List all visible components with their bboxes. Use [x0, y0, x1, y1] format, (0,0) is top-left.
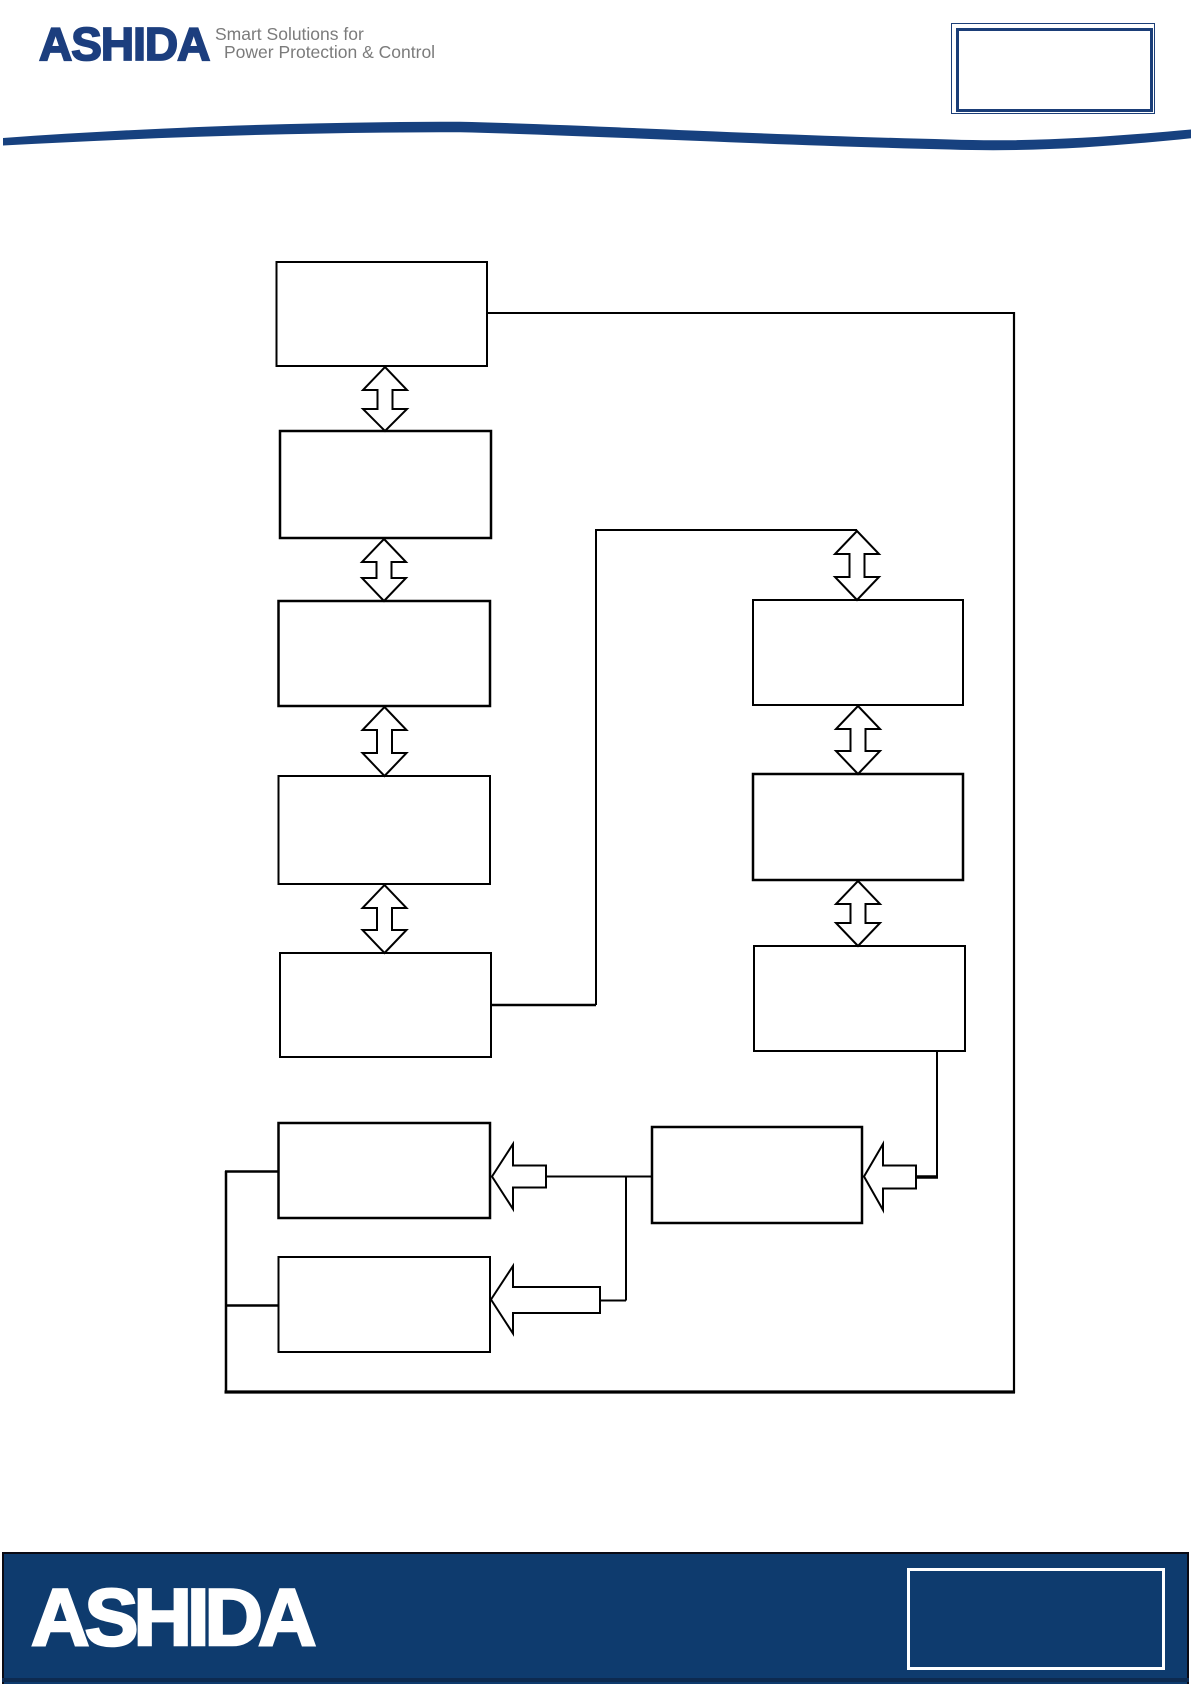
double arrow A5 wire-box6	[835, 531, 879, 600]
double arrow A3 box3-box4	[363, 707, 407, 776]
footer ASHIDA wordmark	[31, 1572, 312, 1665]
header top-right inner frame	[956, 28, 1153, 112]
double arrow A1 box1-box2	[363, 367, 407, 431]
wire into arrow10 tail	[916, 1175, 938, 1179]
footer bar	[2, 1552, 1189, 1684]
wire from box5 right	[491, 1004, 596, 1007]
logo tagline line 1	[215, 24, 364, 45]
vertical riser wire x596	[595, 530, 597, 1005]
block box 1	[277, 262, 488, 366]
block box 2	[280, 431, 491, 538]
top wire to arrow A5	[595, 529, 857, 531]
footer bottom dark line	[2, 1678, 1189, 1682]
wire from arrow9 tail to box10	[546, 1176, 652, 1178]
block box 4	[279, 776, 491, 884]
double arrow A4 box4-box5	[363, 885, 407, 953]
outer bottom rail wire	[225, 1390, 1016, 1393]
header swoosh curve	[0, 0, 1191, 170]
logo ASHIDA wordmark	[39, 17, 209, 71]
drop wire from box8 bottom	[936, 1051, 938, 1177]
branch vertical wire x626	[625, 1177, 627, 1301]
block box 9	[279, 1123, 491, 1218]
block box 6	[753, 600, 963, 705]
outer left rail wire	[225, 1171, 228, 1393]
double arrow A6 box6-box7	[836, 706, 880, 774]
stub wire into box9	[225, 1170, 278, 1173]
footer right white frame	[907, 1568, 1165, 1670]
block box 8	[754, 946, 965, 1051]
left arrow into box11	[491, 1266, 600, 1334]
logo tagline line 2	[224, 42, 435, 63]
block box 7	[753, 774, 963, 880]
wire from box1 right to outer right rail	[487, 312, 1014, 314]
block box 11	[279, 1257, 491, 1352]
block box 10	[652, 1127, 862, 1223]
stub wire into box11	[225, 1304, 278, 1307]
block box 3	[279, 601, 491, 706]
header top-right outer frame	[951, 23, 1155, 114]
wire into arrow11 tail	[600, 1300, 626, 1302]
outer right rail wire	[1013, 312, 1015, 1393]
left arrow into box10	[864, 1144, 916, 1210]
left arrow into box9	[492, 1144, 546, 1209]
double arrow A2 box2-box3	[362, 539, 406, 601]
double arrow A7 box7-box8	[836, 881, 880, 946]
block box 5	[280, 953, 491, 1057]
